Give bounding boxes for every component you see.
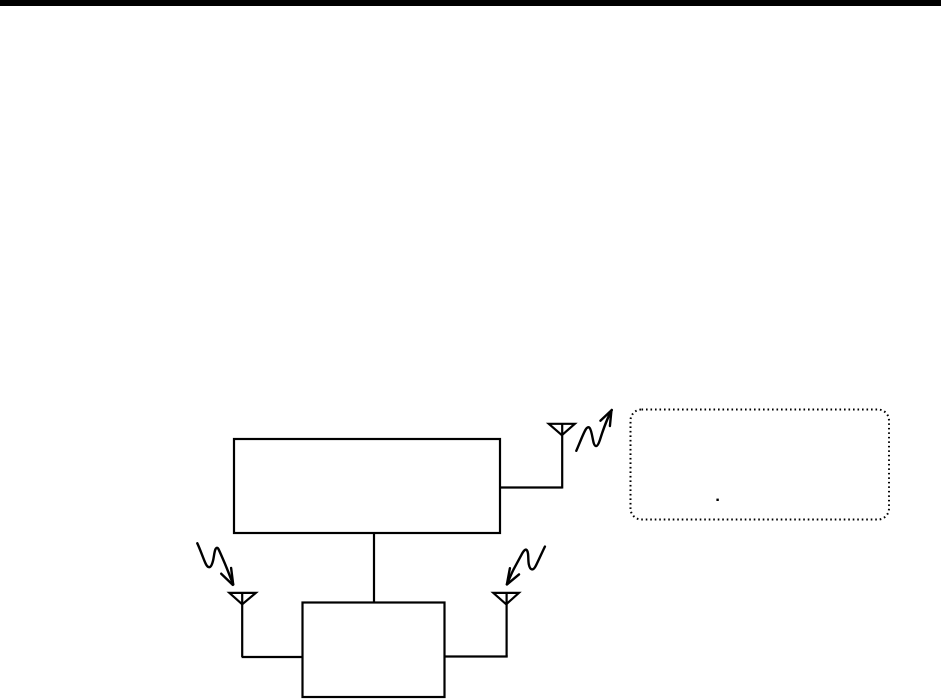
antenna ANT1 mast (vertical feed line) [561,424,563,489]
antenna ANT3 triangle (right) [493,593,519,604]
dotted rounded box (cloud/network placeholder) [631,410,890,520]
antenna ANT1 triangle [549,424,575,435]
block U1 (upper large rectangle) [234,439,500,533]
wire from ANT2 to U2 left edge [242,656,303,658]
antenna ANT2 triangle (left) [229,593,255,604]
antenna ANT3 mast [506,593,508,657]
wire from U1 bottom to block U2 [373,533,375,602]
top black bar [0,0,941,6]
dot (period) inside dotted box [716,499,718,501]
antenna ANT2 mast [241,593,243,657]
rf signal arrow W1 (wavy arrow up-right from ANT1) [576,410,612,451]
wire from U2 right edge to ANT3 [445,655,508,657]
block U2 (lower small rectangle) [303,603,445,698]
rf signal arrow W2 (wavy arrow down-right onto ANT2) [197,543,233,585]
wire from U1 right edge to antenna ANT1 feed [500,486,563,488]
rf signal arrow W3 (wavy arrow down-left onto ANT3) [507,547,545,585]
